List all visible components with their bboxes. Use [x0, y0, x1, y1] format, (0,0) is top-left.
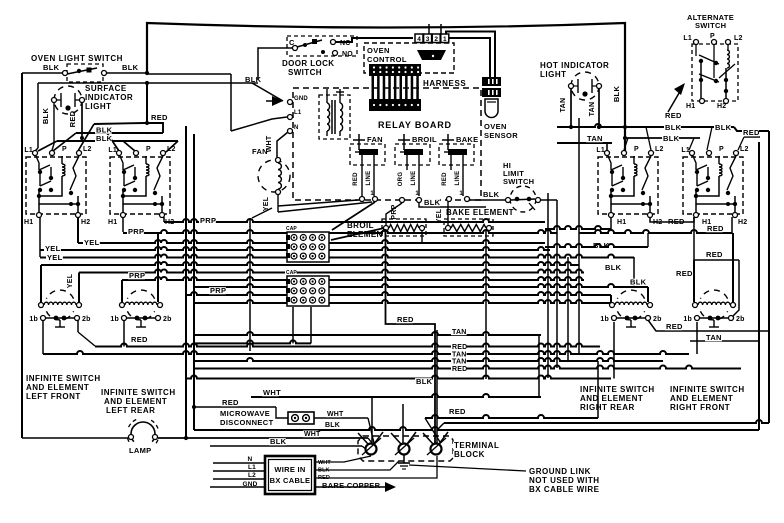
label TAN on y341: [705, 334, 722, 341]
element left front coil: [39, 303, 44, 308]
switch right rear internal bus: [611, 190, 650, 204]
label RED above corner: [396, 316, 413, 323]
wire YEL y257: [40, 255, 634, 258]
alternate switch terminals top: [694, 40, 699, 45]
svg-text:L1: L1: [248, 464, 256, 471]
diagonal to P left front: [53, 133, 76, 151]
svg-text:BLK: BLK: [630, 278, 647, 287]
wire TAN right column top: [557, 142, 612, 144]
wire diagonal to GND terminal: [252, 82, 258, 84]
svg-text:PRP: PRP: [210, 286, 226, 295]
svg-text:1b: 1b: [683, 316, 692, 323]
wire y295 jog down: [610, 295, 612, 303]
bare copper wire with arrow: [315, 486, 385, 488]
oven control display: [417, 50, 446, 60]
element left front lower arc: [46, 311, 73, 320]
svg-text:FAN: FAN: [252, 147, 268, 156]
switch right rear bimetal arm: [642, 156, 651, 190]
svg-text:BAKE: BAKE: [456, 135, 478, 144]
wire lamp left: [22, 437, 128, 439]
label RED on y233: [706, 225, 723, 232]
svg-text:SWITCH: SWITCH: [695, 21, 726, 30]
wire bus y303 to right rear element: [194, 300, 612, 303]
svg-text:RED: RED: [397, 315, 414, 324]
svg-text:RED: RED: [151, 113, 168, 122]
svg-text:WHT: WHT: [318, 460, 331, 466]
svg-text:RED: RED: [668, 217, 685, 226]
svg-text:RED: RED: [707, 224, 724, 233]
svg-text:P: P: [710, 33, 715, 40]
svg-text:RED: RED: [131, 335, 148, 344]
svg-text:BLK: BLK: [122, 63, 139, 72]
wire bottom long y423: [444, 420, 769, 423]
wire segment y74 to corner x231: [147, 73, 231, 75]
alternate switch terminals bottom: [700, 99, 705, 104]
svg-text:1b: 1b: [110, 316, 119, 323]
wire stubs connector to top run: [428, 24, 430, 34]
relay BAKE lead 1: [450, 155, 452, 170]
switch right rear contact set 1: [608, 156, 611, 170]
svg-text:SWITCH: SWITCH: [503, 177, 534, 186]
wire column x557: [556, 200, 558, 368]
transformer top cross: [336, 91, 344, 93]
wire bus y266: [41, 262, 579, 265]
label TAN on y361: [451, 358, 467, 365]
svg-text:RED: RED: [676, 269, 693, 278]
wire TAN y361: [194, 358, 663, 361]
label BLK on y250 right: [592, 242, 609, 249]
switch left front internal bus: [39, 190, 78, 204]
switch right front terminal H2: [733, 213, 738, 218]
svg-text:BLK: BLK: [605, 263, 622, 272]
switch right front internal bus: [696, 190, 735, 204]
svg-text:P: P: [634, 146, 639, 153]
wire right edge vertical x759: [758, 142, 760, 430]
infinite switch left front enclosure: [26, 157, 86, 214]
svg-text:BLK: BLK: [325, 422, 340, 429]
relay FAN lead 1: [361, 155, 363, 170]
wire right front element risers: [693, 260, 695, 302]
alternate switch H1 column: [700, 61, 702, 100]
wire left rear H2 drop: [163, 217, 165, 222]
svg-text:BLK: BLK: [715, 123, 732, 132]
svg-text:H1: H1: [617, 219, 626, 226]
switch left front coil: [61, 156, 63, 164]
svg-text:RED: RED: [665, 111, 682, 120]
wire bake element left lead: [447, 202, 449, 225]
fan relay lead to terminal: [361, 170, 363, 196]
wire BLK from surface light to P of left front switch: [53, 102, 55, 144]
wire y229 right: [545, 226, 611, 229]
wire BLK y287: [194, 284, 648, 287]
hot indicator light symbol: [571, 72, 599, 100]
harness connector bottom bar: [369, 99, 421, 111]
relay board enclosure: [293, 88, 481, 200]
svg-text:HARNESS: HARNESS: [423, 79, 466, 88]
wire bake element right lead down: [485, 230, 487, 379]
svg-text:INDICATOR: INDICATOR: [85, 93, 133, 102]
svg-text:BLK: BLK: [43, 63, 60, 72]
element right rear upper arc: [617, 290, 644, 299]
svg-text:H1: H1: [24, 219, 33, 226]
terminal block enclosure: [358, 436, 453, 461]
hi limit switch symbol: [510, 186, 536, 212]
wire hi limit right to column: [541, 199, 557, 201]
diagonal L2 right front: [738, 137, 744, 150]
switch right rear terminal L1: [605, 151, 610, 156]
wire PRP y222: [164, 219, 545, 222]
element right front switch row: [695, 316, 700, 321]
oven sensor connector blocks: [482, 77, 501, 86]
wire y378: [186, 376, 611, 379]
switch left front contact set 2: [39, 174, 41, 186]
svg-text:BLK: BLK: [270, 437, 287, 446]
label TAN on y143: [586, 135, 603, 142]
svg-text:BLK: BLK: [612, 86, 621, 103]
svg-text:WIRE IN: WIRE IN: [274, 465, 305, 474]
label RED on y260: [705, 251, 722, 258]
svg-text:L1: L1: [681, 147, 690, 154]
svg-text:P: P: [719, 146, 724, 153]
label RED under left rear element: [130, 336, 147, 343]
wire broil element left lead: [386, 203, 402, 225]
svg-text:RED: RED: [666, 322, 683, 331]
wire RED right rear 2b: [648, 320, 770, 331]
svg-text:BLK: BLK: [483, 190, 500, 199]
wire left front 2b drop: [77, 320, 79, 332]
svg-text:NO: NO: [342, 51, 353, 58]
label WHT y397: [262, 389, 279, 396]
switch right front coil: [718, 156, 720, 164]
relay BROIL lead 2: [418, 155, 420, 196]
wire L1 stub: [213, 470, 265, 472]
switch left rear terminal H1: [121, 213, 126, 218]
svg-text:RED: RED: [452, 366, 467, 373]
svg-text:RED: RED: [743, 128, 760, 137]
label BLK y446: [269, 438, 286, 445]
wire BLK y141: [57, 140, 178, 142]
wire TAN right front: [690, 340, 760, 342]
wire BLK y446: [210, 445, 362, 447]
svg-text:PRP: PRP: [391, 204, 398, 219]
label RED right edge: [742, 129, 759, 136]
svg-text:NOT USED WITH: NOT USED WITH: [529, 476, 600, 485]
switch left front terminal L1: [33, 151, 38, 156]
wire bake relay lead 2 horizontal: [419, 202, 486, 207]
wire RED right rear H2 to right front H1: [650, 217, 694, 222]
connector block CAP: [287, 276, 329, 306]
svg-text:TERMINAL: TERMINAL: [454, 441, 499, 450]
svg-text:2b: 2b: [163, 316, 172, 323]
svg-text:INFINITE SWITCH: INFINITE SWITCH: [101, 388, 176, 397]
wire right rear 1b drop: [613, 322, 615, 379]
alternate switch contact 1: [695, 44, 697, 56]
wire PRP y232: [123, 230, 557, 233]
element right front thermal contact: [713, 320, 715, 327]
svg-text:YEL: YEL: [47, 253, 63, 262]
wire column x568: [567, 257, 569, 361]
transformer primary coil: [326, 89, 328, 103]
switch left rear terminal H2: [160, 213, 165, 218]
wire BLK from box: [315, 461, 399, 470]
svg-text:TAN: TAN: [587, 134, 603, 143]
wire y257 drop to right rear element: [633, 257, 635, 287]
svg-text:BX CABLE: BX CABLE: [270, 476, 311, 485]
svg-text:L2: L2: [248, 472, 256, 479]
label TERMINAL BLOCK: [453, 442, 499, 450]
terminal block post leads vertical: [371, 397, 373, 443]
element left rear upper arc: [127, 290, 154, 299]
svg-text:AND ELEMENT: AND ELEMENT: [26, 383, 89, 392]
label TAN on y335: [451, 329, 467, 336]
wire RED from box: [315, 456, 437, 478]
wire WHT from microwave connector right: [314, 417, 368, 419]
wire N stub: [213, 462, 265, 464]
alternate switch coil: [727, 44, 729, 50]
oven light switch enclosure: [67, 64, 103, 82]
label BLK on y272 right: [604, 264, 621, 271]
broil element enclosure: [382, 219, 426, 236]
node at x147 y83: [145, 81, 149, 85]
wire column x579: [578, 118, 580, 354]
wire left front H1 drop: [39, 217, 41, 257]
switch right rear terminal H1: [609, 213, 614, 218]
svg-text:2b: 2b: [653, 316, 662, 323]
svg-text:YEL: YEL: [67, 273, 74, 288]
svg-text:AND ELEMENT: AND ELEMENT: [670, 394, 733, 403]
svg-text:2: 2: [434, 36, 438, 43]
wire left front 1b drop: [42, 320, 44, 354]
svg-text:RED: RED: [222, 398, 239, 407]
switch left rear contact set 2: [123, 174, 125, 186]
harness ribbon wires: [372, 76, 375, 99]
wire GND stub: [210, 486, 265, 488]
label YEL on y257: [46, 254, 63, 261]
label RED on y331: [665, 323, 682, 330]
alternate switch P lead: [713, 44, 715, 78]
terminal block post 2: [399, 444, 410, 455]
element right rear switch row: [612, 316, 617, 321]
label BLK on y133: [95, 127, 112, 134]
microwave disconnect connector: [288, 412, 314, 424]
door lock switch contacts: [293, 46, 298, 51]
wire from fan area down left: [252, 208, 272, 218]
transformer enclosure: [319, 95, 350, 139]
svg-text:L1: L1: [108, 147, 117, 154]
switch right front terminal H1: [694, 213, 699, 218]
svg-text:H1: H1: [686, 103, 695, 110]
node at x147 y73: [145, 71, 149, 75]
svg-text:1b: 1b: [29, 316, 38, 323]
terminal block post 1: [366, 444, 377, 455]
element right front lower arc: [700, 311, 727, 320]
wire vertical bus x194: [193, 134, 195, 430]
alternate switch H2 column: [724, 78, 728, 82]
svg-text:LINE: LINE: [366, 171, 372, 186]
relay BAKE contact bar: [448, 149, 467, 155]
svg-text:PRP: PRP: [128, 227, 144, 236]
switch right rear terminal L2: [649, 151, 654, 156]
relay FAN cross: [358, 134, 360, 150]
svg-text:GROUND LINK: GROUND LINK: [529, 467, 591, 476]
wire right edge vertical x769: [768, 131, 770, 423]
svg-text:LEFT FRONT: LEFT FRONT: [26, 392, 81, 401]
svg-text:TAN: TAN: [560, 98, 567, 113]
switch right rear terminal H2: [648, 213, 653, 218]
wire WHT from box: [315, 456, 371, 462]
svg-text:H2: H2: [738, 219, 747, 226]
switch right front contact set 1: [693, 156, 696, 170]
wire vertical bus x186: [185, 126, 187, 438]
svg-text:H2: H2: [81, 219, 90, 226]
wire y287 drop to element coil: [647, 287, 649, 302]
svg-text:TAN: TAN: [706, 333, 722, 342]
label BLK hi limit: [482, 191, 499, 198]
connector block CAP label: [285, 270, 297, 275]
infinite switch right rear enclosure: [598, 157, 658, 214]
label YEL on y244: [83, 239, 100, 246]
svg-text:AND ELEMENT: AND ELEMENT: [580, 394, 643, 403]
label TAN on y354: [451, 351, 467, 358]
switch right rear terminal P: [622, 151, 627, 156]
relay FAN lead 2: [373, 155, 375, 196]
relay board L1 terminal: [288, 115, 293, 120]
wire TAN y335: [194, 332, 541, 335]
svg-text:CAP: CAP: [286, 270, 297, 276]
wire left front H2 drop: [77, 217, 79, 243]
alternate switch pointer arrow: [668, 88, 682, 112]
switch right rear coil: [633, 156, 635, 164]
wire RED y346: [95, 344, 600, 347]
svg-text:RED: RED: [68, 110, 77, 127]
label BLK near broil: [423, 199, 440, 206]
wire BLK to oven light switch: [22, 72, 65, 74]
label PRP on y281: [128, 272, 145, 279]
alternate switch enclosure: [692, 44, 738, 101]
diagonal L1 right front rise: [689, 138, 694, 150]
svg-text:TAN: TAN: [452, 352, 466, 359]
wire left rear element coil risers: [121, 280, 123, 302]
element right front coil: [693, 303, 698, 308]
svg-text:YEL: YEL: [84, 238, 100, 247]
wire BLK from oven light switch to node: [107, 72, 147, 74]
oven light switch contacts: [63, 71, 68, 76]
wire main top run BLK: [147, 23, 625, 152]
wire diagonal relay to connector: [332, 202, 375, 230]
label BLK on y127 right: [714, 124, 731, 131]
wire RED y260 right front: [693, 217, 695, 260]
label PRP on y296: [209, 287, 226, 294]
switch right front bimetal arm: [727, 156, 736, 190]
wire y247: [545, 244, 648, 247]
svg-text:H1: H1: [108, 219, 117, 226]
wire YEL y244: [78, 240, 545, 243]
label WHT y418: [326, 411, 342, 418]
relay board GND terminal: [288, 100, 293, 105]
label BLK on y127 left: [664, 124, 681, 131]
switch left front terminal L2: [77, 151, 82, 156]
svg-text:RIGHT REAR: RIGHT REAR: [580, 403, 635, 412]
harness connector top bar: [369, 64, 421, 76]
wire bottom long y430: [194, 427, 759, 430]
element right rear lower arc: [617, 311, 644, 320]
svg-text:ORG: ORG: [398, 172, 404, 187]
switch left rear terminal L1: [117, 151, 122, 156]
svg-text:BLK: BLK: [665, 123, 682, 132]
diagonal P right rear rise: [624, 138, 628, 150]
svg-text:4: 4: [417, 36, 421, 43]
label PRP on y222: [199, 217, 216, 224]
relay BAKE enclosure: [439, 144, 474, 165]
svg-text:DOOR LOCK: DOOR LOCK: [282, 59, 335, 68]
switch left rear terminal P: [134, 151, 139, 156]
label RED on y368: [451, 366, 467, 373]
wire drop to right front 2b: [733, 260, 739, 316]
diagonal P right front rise: [707, 127, 712, 150]
svg-text:BLK: BLK: [96, 134, 113, 143]
wire left front element coil risers: [40, 265, 42, 302]
switch left rear bimetal arm: [154, 156, 163, 190]
wire RED y123: [94, 123, 163, 133]
svg-text:P: P: [62, 146, 67, 153]
wire right front 1b drop: [696, 322, 698, 354]
svg-text:RED: RED: [449, 407, 466, 416]
svg-text:WHT: WHT: [327, 411, 344, 418]
switch left front terminal H1: [37, 213, 42, 218]
wire lamp right: [158, 437, 368, 439]
svg-text:2b: 2b: [82, 316, 91, 323]
svg-text:L2: L2: [655, 146, 664, 153]
wire RED to terminal block right: [425, 415, 598, 418]
svg-text:INFINITE SWITCH: INFINITE SWITCH: [580, 385, 655, 394]
svg-text:BLK: BLK: [41, 108, 50, 125]
relay BAKE cross: [447, 134, 449, 150]
svg-text:HOT INDICATOR: HOT INDICATOR: [540, 61, 609, 70]
svg-text:RIGHT FRONT: RIGHT FRONT: [670, 403, 730, 412]
alternate switch contact 2: [699, 78, 703, 82]
svg-text:L1: L1: [596, 147, 605, 154]
svg-text:OVEN LIGHT SWITCH: OVEN LIGHT SWITCH: [31, 54, 123, 63]
connector 4 3 2 1: [415, 34, 423, 43]
transformer secondary coil: [339, 89, 341, 103]
svg-text:LAMP: LAMP: [129, 446, 151, 455]
relay BROIL cross: [403, 134, 405, 150]
switch left rear coil: [145, 156, 147, 164]
wire vertical x250: [249, 218, 251, 351]
door lock switch enclosure: [287, 36, 357, 56]
wire vertical x147 lower: [146, 83, 148, 123]
svg-text:OVEN: OVEN: [484, 122, 507, 131]
label BLK on y141: [95, 135, 112, 142]
wire RED y233: [579, 230, 732, 233]
wire bus y296: [186, 292, 611, 295]
fan motor symbol: [258, 160, 290, 192]
svg-text:BARE COPPER: BARE COPPER: [322, 481, 381, 490]
bake element resistor: [446, 226, 451, 231]
label BAKE ELEMENT: [445, 209, 511, 217]
label BLK on y287: [629, 279, 646, 286]
svg-text:SENSOR: SENSOR: [484, 131, 518, 140]
transformer core: [331, 100, 333, 134]
svg-text:PRP: PRP: [129, 271, 145, 280]
wire WHT y397: [251, 394, 541, 397]
svg-text:PRP: PRP: [200, 216, 216, 225]
wire from N to fan motor: [277, 132, 288, 158]
svg-text:CONTROL: CONTROL: [367, 55, 407, 64]
element right front upper arc: [700, 290, 727, 299]
svg-text:L2: L2: [83, 146, 92, 153]
switch left rear terminal L2: [161, 151, 166, 156]
